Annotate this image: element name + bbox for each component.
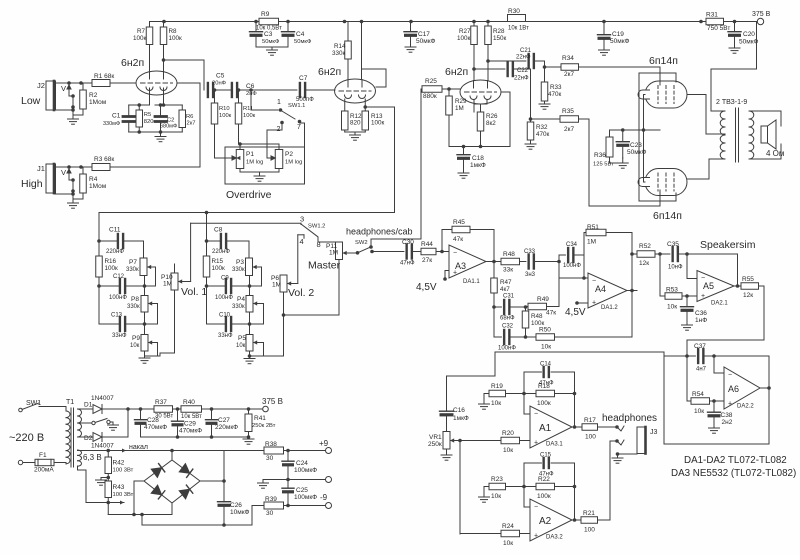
speaker: [761, 120, 784, 158]
wire overdrive loop: [225, 147, 305, 184]
svg-text:100мкФ: 100мкФ: [294, 494, 317, 501]
svg-text:1M log: 1M log: [285, 160, 302, 166]
svg-text:33к: 33к: [503, 267, 513, 274]
capacitor C16: [440, 407, 469, 432]
svg-text:C5: C5: [216, 73, 225, 80]
wire R52 C35: [655, 252, 670, 256]
svg-text:C1: C1: [112, 113, 121, 120]
capacitor C10: [207, 313, 233, 340]
svg-text:R44: R44: [421, 241, 433, 248]
resistor R40: [181, 399, 202, 420]
svg-text:22нФ: 22нФ: [514, 76, 529, 82]
wire C22 to node: [513, 69, 560, 122]
svg-text:250к: 250к: [428, 441, 442, 448]
node rail junctions: [162, 20, 736, 24]
wire A5 feedback: [687, 254, 738, 286]
capacitor C32: [494, 307, 536, 352]
ground C18: [458, 173, 469, 178]
wire SW pin8 to P11: [318, 241, 339, 243]
svg-text:R6: R6: [186, 114, 193, 120]
svg-text:R7: R7: [137, 28, 146, 35]
ground Vol1: [139, 356, 150, 363]
svg-text:200мА: 200мА: [34, 467, 54, 474]
wire J2 to node: [55, 81, 93, 85]
svg-text:22нФ: 22нФ: [516, 55, 531, 61]
op-amp A3: [449, 245, 486, 285]
resistor R6: [179, 105, 195, 132]
svg-text:−: −: [728, 372, 732, 379]
capacitor C5: [208, 73, 227, 98]
svg-text:R29: R29: [455, 98, 467, 105]
svg-text:50мкФ: 50мкФ: [627, 149, 647, 156]
capacitor C19: [598, 22, 630, 51]
capacitor C35: [667, 241, 683, 271]
svg-text:125 5Вт: 125 5Вт: [593, 162, 614, 168]
resistor R18: [536, 383, 555, 407]
svg-text:100к: 100к: [212, 265, 226, 272]
svg-text:10к: 10к: [130, 343, 140, 349]
svg-text:C36: C36: [695, 310, 707, 317]
wire P10 bottom: [158, 290, 175, 356]
svg-text:100нФ: 100нФ: [563, 263, 581, 269]
potentiometer P9: [130, 335, 154, 352]
svg-text:C9: C9: [221, 276, 229, 282]
svg-text:R18: R18: [538, 383, 550, 390]
resistor R30: [508, 8, 530, 32]
wire SW2 phones to C30: [372, 251, 404, 253]
svg-text:R17: R17: [584, 417, 596, 424]
svg-text:2нФ: 2нФ: [246, 91, 257, 97]
wire rectified rail: [128, 407, 154, 411]
wire C31 node: [509, 305, 527, 309]
wire A1 plus: [501, 440, 530, 442]
wire R12 R13 gnd: [345, 132, 366, 135]
svg-text:R15: R15: [212, 258, 224, 265]
ground zero out: [258, 483, 269, 488]
svg-text:12к: 12к: [639, 260, 649, 267]
ground input Low: [68, 115, 79, 124]
svg-text:330к: 330к: [332, 50, 346, 57]
svg-text:R10: R10: [219, 106, 230, 112]
svg-text:220нФ: 220нФ: [212, 249, 230, 255]
wire R34 to grid V4: [579, 67, 661, 85]
svg-text:R54: R54: [692, 391, 704, 398]
svg-text:10к: 10к: [667, 304, 677, 311]
svg-text:R11: R11: [243, 106, 253, 112]
ground tube1 cathode: [155, 132, 166, 142]
svg-text:Vol. 1: Vol. 1: [181, 286, 207, 298]
tube V3 6н2п: [445, 66, 501, 104]
wire heater bridge: [126, 449, 225, 453]
ground C17: [405, 47, 416, 52]
wire minus rail: [252, 505, 264, 507]
svg-text:C3: C3: [264, 31, 273, 38]
svg-text:A3: A3: [455, 261, 466, 271]
svg-text:R47: R47: [500, 279, 512, 286]
svg-text:C14: C14: [540, 362, 552, 368]
svg-text:C32: C32: [502, 324, 514, 330]
svg-text:R43: R43: [113, 484, 125, 491]
resistor R8: [160, 22, 182, 73]
svg-text:1M: 1M: [329, 250, 338, 257]
svg-text:C20: C20: [743, 31, 755, 38]
svg-text:330к: 330к: [232, 304, 245, 310]
text 6.3V: [83, 453, 102, 462]
svg-text:R4: R4: [89, 176, 98, 183]
svg-text:+: +: [534, 440, 538, 447]
potentiometer P1: [229, 150, 263, 169]
svg-text:3н3: 3н3: [525, 272, 536, 278]
wire screen V4: [639, 73, 676, 201]
tube V5 6п14п: [638, 169, 687, 223]
wire R53 to plus: [682, 294, 697, 298]
svg-text:330к: 330к: [127, 304, 140, 310]
svg-text:C25: C25: [296, 487, 308, 494]
wire C13 node: [125, 312, 157, 335]
svg-text:V: V: [61, 168, 66, 177]
svg-text:C17: C17: [418, 31, 430, 38]
wire tube2 to bus: [99, 107, 395, 213]
svg-text:50мкФ: 50мкФ: [416, 38, 436, 45]
svg-text:C30: C30: [402, 239, 414, 246]
resistor R32: [527, 122, 549, 144]
wire cathode1: [129, 88, 150, 107]
ground R41: [243, 439, 254, 444]
svg-text:C21: C21: [520, 48, 532, 54]
wire A6 out loop: [664, 352, 771, 444]
capacitor C12: [97, 274, 127, 301]
svg-text:2к7: 2к7: [564, 126, 574, 133]
svg-text:R39: R39: [265, 496, 277, 503]
svg-text:C18: C18: [472, 155, 484, 162]
svg-text:6п14п: 6п14п: [653, 210, 682, 222]
svg-text:C11: C11: [109, 227, 121, 234]
wire C3 C4 join: [256, 47, 288, 50]
switch SW1.2: [298, 215, 326, 250]
svg-text:330к: 330к: [126, 267, 139, 273]
wire R39 out: [284, 504, 326, 508]
svg-text:470к: 470к: [548, 91, 562, 98]
svg-text:C23: C23: [630, 142, 642, 149]
op-amp A6: [724, 367, 760, 410]
svg-text:50мкФ: 50мкФ: [262, 39, 280, 45]
svg-text:375 В: 375 В: [752, 11, 771, 18]
svg-text:D2: D2: [84, 435, 93, 442]
svg-text:−: −: [534, 411, 538, 418]
svg-text:DA3.2: DA3.2: [546, 535, 563, 541]
potentiometer P11: [326, 242, 349, 260]
resistor R5: [136, 105, 153, 132]
capacitor C34: [559, 242, 584, 269]
svg-text:J3: J3: [650, 429, 658, 436]
wire R44 to A3: [436, 250, 449, 254]
capacitor C23: [616, 130, 646, 158]
diode D2: [78, 433, 129, 450]
capacitor C37: [664, 343, 769, 373]
svg-text:-9: -9: [320, 493, 328, 502]
svg-text:8к2: 8к2: [486, 120, 496, 127]
resistor R42: [105, 451, 134, 482]
svg-text:C37: C37: [694, 343, 706, 350]
potentiometer P4: [232, 296, 259, 313]
wire plate V4 to OT: [688, 95, 726, 135]
svg-text:6н2п: 6н2п: [121, 57, 144, 69]
wire P6 bottom: [282, 292, 286, 356]
potentiometer P2: [267, 150, 302, 169]
capacitor C38: [708, 401, 733, 428]
resistor R47: [491, 262, 512, 308]
svg-text:1: 1: [277, 99, 281, 106]
svg-text:P7: P7: [129, 259, 137, 266]
wire R25 to grid: [442, 87, 460, 91]
wire heater bottom: [78, 466, 125, 505]
svg-text:375 В: 375 В: [262, 397, 283, 406]
svg-text:Т1: Т1: [66, 399, 74, 406]
svg-text:470к: 470к: [536, 131, 550, 138]
resistor R23: [489, 476, 506, 500]
svg-text:100 3Вт: 100 3Вт: [113, 492, 134, 498]
resistor R13: [362, 99, 385, 132]
svg-text:C8: C8: [214, 227, 223, 234]
svg-text:C29: C29: [184, 421, 196, 428]
svg-text:470мкФ: 470мкФ: [144, 424, 167, 431]
text High: [21, 178, 43, 190]
wire cathode gnd rail: [129, 130, 183, 134]
svg-text:R49: R49: [537, 296, 549, 303]
svg-text:~220 В: ~220 В: [9, 432, 44, 444]
ground tube2 cathode: [350, 135, 361, 140]
svg-text:250к 2Вт: 250к 2Вт: [252, 423, 276, 429]
svg-text:+: +: [592, 300, 596, 307]
svg-text:Speakersim: Speakersim: [700, 239, 756, 251]
svg-text:330к: 330к: [232, 267, 245, 273]
svg-text:P8: P8: [131, 296, 139, 303]
resistor R53: [660, 254, 682, 311]
svg-text:10к: 10к: [503, 540, 513, 547]
svg-text:10к: 10к: [541, 344, 551, 351]
wire P11 bottom loop: [284, 260, 340, 316]
wire C35 node: [678, 252, 689, 256]
text Overdrive: [226, 189, 272, 201]
wire P6 wiper to SW pin4: [293, 235, 298, 284]
wire cathode2: [155, 88, 182, 107]
wire P4 wiper loop: [259, 304, 264, 325]
svg-text:47к: 47к: [453, 236, 463, 243]
wire R37 R40: [173, 407, 182, 411]
svg-text:C31: C31: [503, 294, 515, 300]
op-amp A5: [697, 271, 734, 307]
resistor R17: [582, 417, 598, 441]
svg-text:C27: C27: [218, 417, 230, 424]
svg-text:R50: R50: [539, 327, 551, 334]
wire heater return: [108, 503, 172, 517]
wire P5 wiper loop: [248, 343, 284, 358]
resistor R20: [501, 430, 520, 454]
capacitor C28: [135, 409, 168, 437]
svg-text:10к: 10к: [503, 447, 513, 454]
svg-text:100к: 100к: [243, 113, 256, 119]
wire SW pin7 to box: [300, 123, 305, 184]
svg-text:DA2.2: DA2.2: [737, 404, 754, 410]
potentiometer P6: [271, 275, 293, 292]
wire J1 to node: [55, 165, 93, 169]
svg-text:P3: P3: [236, 259, 244, 266]
capacitor C1: [103, 105, 135, 132]
capacitor C33: [520, 249, 536, 278]
wire A4 out: [627, 252, 637, 292]
terminal -9: [320, 493, 332, 509]
capacitor C27: [206, 409, 239, 437]
svg-text:2 ТВЗ-1-9: 2 ТВЗ-1-9: [716, 99, 747, 106]
svg-text:10к: 10к: [491, 493, 501, 500]
wire R54 to plus: [710, 399, 725, 403]
svg-text:750 5Вт: 750 5Вт: [707, 25, 730, 32]
wire tube3 cathodes: [474, 100, 487, 112]
text Speakersim: [700, 239, 756, 251]
svg-text:C16: C16: [453, 407, 465, 414]
svg-text:+9: +9: [319, 439, 329, 448]
node plate out: [162, 58, 166, 62]
svg-text:470мкФ: 470мкФ: [179, 428, 202, 435]
ground C19: [599, 50, 610, 55]
resistor R35: [560, 108, 579, 133]
resistor R21: [581, 510, 598, 534]
node C21 tap: [486, 59, 490, 63]
resistor R48k: [522, 307, 544, 328]
wire R17 to J3: [598, 425, 619, 429]
wire R21 to J3: [598, 439, 619, 520]
svg-text:A2: A2: [539, 516, 552, 527]
svg-text:6п14п: 6п14п: [649, 55, 678, 67]
svg-text:Vol. 2: Vol. 2: [288, 287, 314, 299]
svg-text:R32: R32: [536, 124, 548, 131]
svg-text:10к 1Вт: 10к 1Вт: [508, 26, 529, 32]
ground R42 R43 mid: [96, 476, 111, 486]
wire A1 out: [572, 425, 582, 429]
resistor R48: [501, 251, 520, 274]
jack J3 ring contact: [617, 440, 624, 445]
wire bottom return: [142, 506, 252, 527]
jack J3: [637, 427, 658, 454]
svg-text:C26: C26: [230, 502, 242, 509]
svg-text:R53: R53: [666, 287, 678, 294]
wire A4 plus bias: [565, 301, 588, 318]
capacitor C2: [155, 105, 177, 132]
resistor R34: [561, 55, 579, 78]
resistor R52: [632, 243, 655, 267]
resistor R27: [457, 22, 477, 81]
svg-text:R52: R52: [639, 243, 651, 250]
svg-text:1мкФ: 1мкФ: [470, 162, 486, 169]
svg-text:4н7: 4н7: [696, 367, 707, 373]
svg-text:J1: J1: [37, 164, 45, 173]
op-amp A1: [530, 406, 572, 448]
capacitor C31: [492, 294, 515, 322]
svg-text:R3 68к: R3 68к: [94, 156, 114, 163]
svg-text:100к: 100к: [371, 120, 385, 127]
svg-text:47нФ: 47нФ: [400, 261, 415, 267]
ground C20: [729, 48, 740, 53]
capacitor C8: [205, 213, 231, 256]
svg-text:30: 30: [266, 510, 274, 517]
wire R35 to grid V5: [579, 119, 661, 206]
wire A5 minus: [687, 254, 697, 279]
svg-text:−: −: [453, 250, 457, 257]
svg-text:R55: R55: [742, 276, 754, 283]
svg-text:R1 68к: R1 68к: [94, 73, 114, 80]
svg-text:100: 100: [585, 434, 596, 441]
resistor R7: [133, 22, 153, 73]
svg-text:P5: P5: [238, 335, 246, 342]
text DA3: [671, 468, 796, 479]
ground J3: [612, 458, 623, 463]
wire SW pin2 to P2 wiper: [267, 124, 282, 158]
svg-text:10к: 10к: [491, 400, 501, 407]
svg-text:7: 7: [297, 124, 301, 131]
svg-text:R38: R38: [265, 441, 277, 448]
svg-text:−: −: [534, 504, 538, 511]
wire A2 out: [572, 518, 581, 522]
svg-text:VR1: VR1: [429, 434, 442, 441]
svg-text:R27: R27: [459, 28, 471, 35]
svg-text:6н2п: 6н2п: [318, 66, 341, 78]
wire P1 P2 bottoms: [240, 169, 279, 177]
capacitor C25: [282, 480, 317, 506]
svg-text:SW1.1: SW1.1: [288, 103, 305, 109]
potentiometer P8: [127, 296, 154, 313]
svg-text:накал: накал: [129, 444, 148, 451]
wire R51 to out: [606, 233, 632, 291]
resistor R15: [203, 241, 225, 324]
transformer T1: [66, 399, 82, 467]
svg-text:R14: R14: [334, 43, 346, 50]
svg-text:3: 3: [300, 215, 304, 224]
svg-text:SW2: SW2: [355, 240, 368, 246]
svg-text:50мкФ: 50мкФ: [610, 38, 630, 45]
fuse F1: [18, 452, 54, 474]
diode bridge D3-D6: [144, 460, 200, 503]
svg-text:10к: 10к: [694, 408, 704, 415]
svg-text:1M: 1M: [272, 282, 281, 289]
svg-text:High: High: [21, 178, 43, 190]
wire J2 ground leg: [54, 83, 83, 115]
svg-text:4 Ом: 4 Ом: [766, 149, 784, 158]
svg-text:4,5V: 4,5V: [416, 282, 437, 293]
op-amp A4: [588, 273, 627, 311]
wire A2 plus: [460, 533, 530, 535]
wire feed to VR1: [447, 352, 665, 411]
svg-text:C10: C10: [219, 313, 231, 319]
ground Vol2: [244, 356, 255, 364]
svg-text:100к: 100к: [457, 35, 471, 42]
wire bridge top: [171, 451, 173, 461]
svg-text:R33: R33: [550, 84, 562, 91]
capacitor C15: [524, 453, 554, 478]
wire top B+ rail: [150, 21, 757, 23]
wire R49 to A4 minus: [547, 306, 560, 308]
wire zero rail: [141, 435, 251, 439]
svg-text:100нФ: 100нФ: [498, 346, 516, 352]
resistor R45: [442, 219, 470, 252]
svg-text:20нФ: 20нФ: [212, 81, 227, 87]
wire C33 to A4 node: [534, 255, 561, 306]
wire C11 to P7: [123, 241, 143, 258]
resistor R51: [584, 224, 606, 255]
wire cathode rail power: [610, 128, 661, 132]
wire R45 feedback: [470, 230, 494, 262]
wire A5 out: [734, 284, 741, 288]
ground R19: [479, 394, 490, 410]
